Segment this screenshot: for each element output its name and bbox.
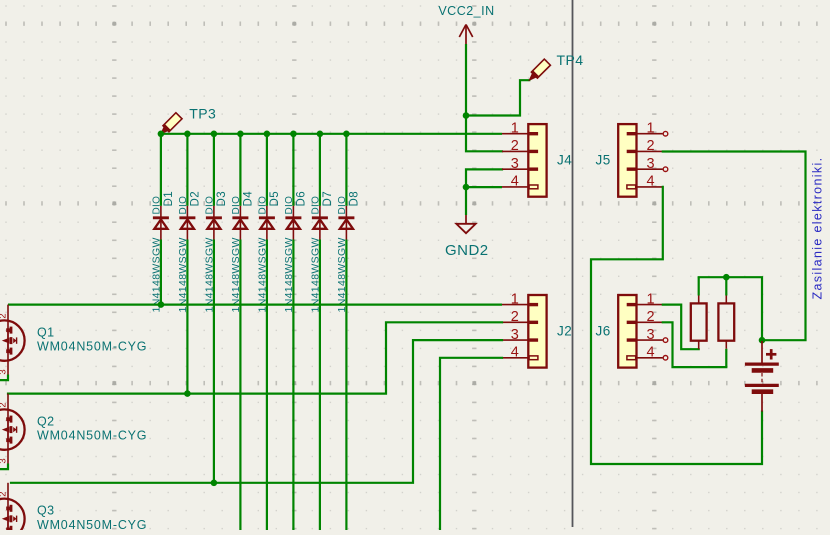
wire D1 anode down	[160, 240, 162, 305]
svg-text:Q3: Q3	[37, 504, 54, 518]
wire Q1 source	[0, 376, 8, 381]
svg-text:Q1: Q1	[37, 325, 54, 339]
svg-text:3: 3	[511, 327, 519, 343]
svg-text:J6: J6	[596, 323, 611, 338]
svg-text:D6: D6	[296, 191, 308, 207]
svg-text:4: 4	[511, 174, 519, 190]
wire Q2 source	[0, 465, 8, 470]
svg-text:1: 1	[511, 121, 519, 137]
svg-text:2: 2	[511, 138, 519, 154]
svg-text:3: 3	[0, 458, 9, 463]
wire J6 pin 2 to R2	[663, 322, 727, 367]
resistor R1	[691, 296, 707, 350]
wire net Q3 gate to J2 pin 3	[11, 340, 502, 483]
junction diode D6 bus node	[290, 131, 297, 138]
svg-text:1: 1	[511, 291, 519, 307]
svg-text:D1: D1	[163, 191, 175, 207]
wire D8 cathode	[345, 134, 347, 206]
svg-text:J4: J4	[557, 153, 572, 168]
wire to TP4	[466, 80, 529, 115]
wire J5 pin 4 ground path	[591, 187, 762, 464]
connector J6	[596, 291, 663, 367]
wire R2 bottom	[725, 349, 727, 367]
junction D3 node	[211, 480, 218, 487]
junction D1 node	[158, 301, 165, 308]
wire D8 anode down	[345, 240, 347, 532]
diode D6 1N4148WSGW	[283, 191, 308, 313]
junction diode D1 bus node	[158, 131, 165, 138]
svg-text:Q2: Q2	[37, 414, 54, 428]
battery BT1	[745, 341, 779, 412]
resistor R2	[718, 296, 734, 349]
svg-text:D2: D2	[190, 191, 202, 207]
no-connect J5 pin 3	[663, 167, 668, 172]
svg-text:1: 1	[646, 291, 654, 307]
junction battery + node	[759, 337, 766, 344]
svg-text:3: 3	[646, 327, 654, 343]
diode D8 1N4148WSGW	[336, 191, 361, 313]
test point TP4	[529, 52, 583, 80]
svg-text:WM04N50M-CYG: WM04N50M-CYG	[37, 518, 147, 530]
wire J2 pin 4 down	[440, 358, 502, 531]
svg-text:4: 4	[646, 174, 654, 190]
transistor Q2 WM04N50M-CYG	[0, 394, 147, 465]
wire J5 pin 2 to battery + rail	[663, 152, 806, 341]
wire D5 anode down	[266, 240, 268, 532]
wire D1 cathode	[160, 134, 162, 206]
wire J4 pin 4	[466, 186, 502, 188]
svg-text:3: 3	[511, 156, 519, 172]
transistor Q1 WM04N50M-CYG	[0, 305, 147, 376]
svg-text:D4: D4	[243, 191, 255, 207]
svg-text:DIO: DIO	[337, 196, 348, 215]
svg-text:2: 2	[0, 492, 9, 497]
svg-text:TP3: TP3	[189, 106, 216, 122]
wire resistor tops to battery +	[698, 277, 700, 295]
transistor Q3 WM04N50M-CYG	[0, 483, 147, 535]
wire D7 cathode	[319, 134, 321, 206]
wire R2 top	[725, 277, 727, 295]
junction VCC node	[463, 112, 470, 119]
junction diode D7 bus node	[317, 131, 324, 138]
no-connect J5 pin 1	[663, 131, 668, 136]
svg-text:TP4: TP4	[557, 52, 584, 68]
svg-text:2: 2	[0, 402, 9, 407]
wire D4 anode down	[239, 240, 241, 532]
wire J6 pin 1 to R1	[663, 305, 699, 350]
wire D3 anode down	[213, 240, 215, 483]
svg-text:DIO: DIO	[284, 196, 295, 215]
diode D7 1N4148WSGW	[309, 191, 334, 313]
diode D3 1N4148WSGW	[203, 191, 228, 313]
wire D5 cathode	[266, 134, 268, 206]
svg-text:4: 4	[646, 345, 654, 361]
svg-text:Zasilanie elektroniki.: Zasilanie elektroniki.	[811, 157, 825, 300]
connector J4	[502, 121, 572, 197]
svg-text:3: 3	[0, 369, 9, 374]
junction GND node	[463, 184, 470, 191]
wire to GND2	[465, 187, 467, 215]
svg-text:DIO: DIO	[178, 196, 189, 215]
wire net Q2 gate to J2 pin 2	[8, 322, 502, 393]
svg-text:D7: D7	[322, 191, 334, 207]
wire D4 cathode	[239, 134, 241, 206]
svg-text:2: 2	[646, 309, 654, 325]
svg-text:2: 2	[0, 313, 9, 318]
sheet divider line	[572, 0, 574, 527]
svg-text:1: 1	[646, 121, 654, 137]
no-connect J6 pin 3	[663, 338, 668, 343]
svg-text:D3: D3	[216, 191, 228, 207]
wire diode anode bus to J4 pin 1	[161, 133, 502, 135]
svg-text:DIO: DIO	[257, 196, 268, 215]
wire D2 cathode	[186, 134, 188, 206]
wire net Q1 gate to J2 pin 1	[8, 304, 502, 306]
wire D6 anode down	[292, 240, 294, 532]
svg-text:DIO: DIO	[151, 196, 162, 215]
svg-text:DIO: DIO	[310, 196, 321, 215]
junction R2 rail node	[723, 274, 730, 281]
junction diode D8 bus node	[343, 131, 350, 138]
svg-text:DIO: DIO	[204, 196, 215, 215]
svg-text:J2: J2	[557, 323, 572, 338]
svg-text:D5: D5	[269, 191, 281, 207]
diode D5 1N4148WSGW	[256, 191, 281, 313]
junction diode D3 bus node	[211, 131, 218, 138]
svg-text:3: 3	[646, 156, 654, 172]
svg-text:2: 2	[646, 138, 654, 154]
ground GND2	[445, 215, 489, 259]
svg-text:J5: J5	[596, 153, 611, 168]
junction diode D4 bus node	[237, 131, 244, 138]
junction D2 node	[184, 390, 191, 397]
svg-text:D8: D8	[349, 191, 361, 207]
svg-text:DIO: DIO	[231, 196, 242, 215]
connector J5	[596, 121, 663, 197]
diode D4 1N4148WSGW	[230, 191, 255, 313]
svg-text:WM04N50M-CYG: WM04N50M-CYG	[37, 340, 147, 354]
wire VCC2_IN vertical	[465, 44, 467, 116]
connector J2	[502, 291, 572, 367]
svg-text:GND2: GND2	[445, 242, 489, 259]
wire D6 cathode	[292, 134, 294, 206]
power symbol VCC2_IN	[438, 4, 494, 44]
wire D2 anode down	[186, 240, 188, 394]
svg-text:VCC2_IN: VCC2_IN	[438, 4, 494, 18]
wire J4 pin 3 to GND	[466, 169, 502, 187]
wire D3 cathode	[213, 134, 215, 206]
diode D2 1N4148WSGW	[177, 191, 202, 313]
wire to J4 pin 2	[466, 116, 502, 152]
test point TP3	[161, 106, 216, 134]
svg-text:WM04N50M-CYG: WM04N50M-CYG	[37, 429, 147, 443]
svg-text:2: 2	[511, 309, 519, 325]
junction diode D5 bus node	[264, 131, 271, 138]
no-connect J6 pin 4	[663, 356, 668, 361]
svg-text:4: 4	[511, 345, 519, 361]
junction diode D2 bus node	[184, 131, 191, 138]
diode D1 1N4148WSGW	[150, 191, 175, 313]
wire D7 anode down	[319, 240, 321, 532]
